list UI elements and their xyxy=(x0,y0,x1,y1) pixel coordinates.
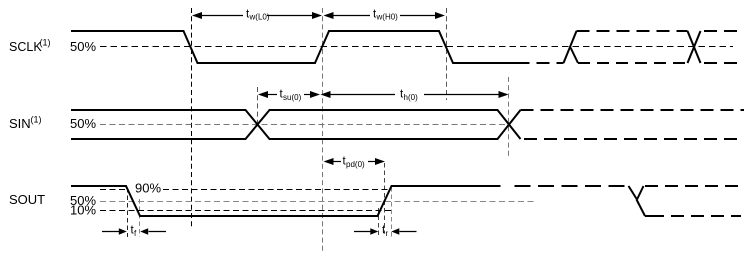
svg-text:SOUT: SOUT xyxy=(9,192,45,207)
dimension t_f arrow left xyxy=(102,231,119,233)
svg-text:10%: 10% xyxy=(70,203,96,218)
wire SIN dashed low after X xyxy=(524,138,744,140)
wire SOUT dashed high after split xyxy=(645,185,741,187)
wire SCLK partial fall arm in break xyxy=(571,48,579,64)
svg-text:SCLK: SCLK xyxy=(9,40,42,54)
svg-text:90%: 90% xyxy=(135,181,161,196)
wire SCLK solid waveform xyxy=(71,31,530,63)
svg-text:w(L0): w(L0) xyxy=(249,13,270,22)
dimension t_w(H0) arrow right xyxy=(435,12,445,19)
svg-text:w(H0): w(H0) xyxy=(376,13,399,22)
svg-text:h(0): h(0) xyxy=(404,93,419,102)
SOUT 10% reference dashed line xyxy=(100,210,391,212)
svg-text:50%: 50% xyxy=(70,116,96,131)
wire SOUT solid waveform xyxy=(71,186,501,216)
vertical dashed marker at SCLK second falling edge (x=446) xyxy=(446,8,448,100)
dimension t_su(0) arrow right xyxy=(310,91,320,98)
wire SOUT dashed low after split xyxy=(671,215,741,217)
svg-text:50%: 50% xyxy=(70,39,96,54)
SOUT 50% reference dashed line xyxy=(100,201,537,203)
wire SCLK dashed low before break xyxy=(537,62,564,64)
vertical dashed marker at SIN second transition (x=508.5) xyxy=(508,77,510,156)
wire SCLK rise transition in break xyxy=(564,31,577,63)
dimension t_r arrow right xyxy=(391,228,399,235)
SCLK 50% reference dashed line xyxy=(100,46,733,48)
vertical dashed marker at SCLK first falling edge (x=191) xyxy=(191,8,193,229)
wire SOUT V split left arm xyxy=(629,186,638,200)
dimension t_w(L0) arrow right xyxy=(312,12,322,19)
vertical dashed marker at SCLK rising edge (x=322.5) xyxy=(322,8,324,252)
wire SCLK dashed high level xyxy=(577,30,688,32)
wire SCLK X crossing rising arm xyxy=(688,31,701,63)
vertical dashed marker at SOUT 50% rise crossing (x=384.8) xyxy=(384,163,386,233)
dimension t_w(H0) arrow left xyxy=(324,12,334,19)
vertical dashed marker at SOUT rise end (x=391) xyxy=(391,187,393,237)
dimension t_r arrow left xyxy=(354,231,371,233)
svg-text:r: r xyxy=(386,229,389,238)
vertical dashed marker at SIN first transition (x=257.5) xyxy=(257,87,259,125)
dimension t_f arrow right xyxy=(140,228,148,235)
wire SCLK X crossing falling arm xyxy=(688,31,701,63)
SOUT 90% reference dashed line left of fall xyxy=(100,189,126,191)
svg-text:(1): (1) xyxy=(40,38,51,48)
vertical dashed marker at SOUT fall start (x=127.5) xyxy=(127,188,129,237)
dimension t_pd(0) arrow right xyxy=(375,158,385,165)
wire SCLK dashed high after X xyxy=(704,30,741,32)
vertical dashed marker at SOUT fall end (x=139.5) xyxy=(139,199,141,237)
svg-text:pd(0): pd(0) xyxy=(346,160,365,169)
wire SIN dashed high after X xyxy=(521,109,745,111)
dimension t_w(L0) arrow left xyxy=(192,12,202,19)
wire SIN high rail solid xyxy=(71,110,521,139)
wire SOUT V split right arm up xyxy=(637,186,644,200)
svg-text:SIN: SIN xyxy=(9,116,31,131)
dimension t_pd(0) arrow left xyxy=(324,158,334,165)
wire SOUT dashed high before break xyxy=(515,185,629,187)
vertical dashed marker at SOUT rise start (x=378.5) xyxy=(378,208,380,237)
dimension t_su(0) arrow left xyxy=(258,91,268,98)
wire SOUT V split down arm xyxy=(637,200,646,217)
dimension t_h(0) arrow left xyxy=(321,91,331,98)
dimension t_h(0) arrow right xyxy=(499,91,509,98)
svg-text:su(0): su(0) xyxy=(283,93,302,102)
svg-text:(1): (1) xyxy=(31,115,42,125)
SIN 50% reference dashed line xyxy=(100,124,509,126)
wire SCLK dashed low level xyxy=(578,62,687,64)
wire SOUT low after split xyxy=(645,215,664,217)
wire SIN low rail solid xyxy=(71,110,521,139)
SOUT 90% reference dashed line right of label xyxy=(163,189,391,191)
wire SCLK dashed low after X xyxy=(704,62,741,64)
